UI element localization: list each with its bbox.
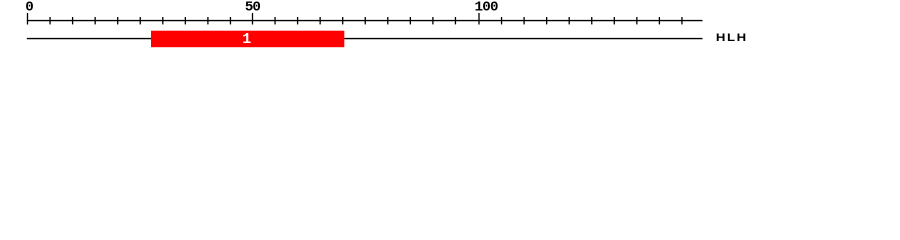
svg-text:100: 100 (475, 0, 499, 16)
ruler baseline (27, 20, 703, 22)
svg-text:HLH: HLH (716, 31, 746, 44)
svg-text:50: 50 (245, 0, 261, 16)
svg-text:0: 0 (25, 0, 34, 16)
ruler scale with domain graphic (0, 0, 900, 58)
svg-text:1: 1 (242, 31, 251, 48)
protein backbone line (27, 38, 703, 40)
minor ticks (50, 17, 682, 24)
major tick 50 (252, 13, 254, 25)
major tick 0 (27, 13, 29, 25)
major tick 100 (478, 13, 480, 25)
domain box 1 (red) (151, 31, 344, 48)
